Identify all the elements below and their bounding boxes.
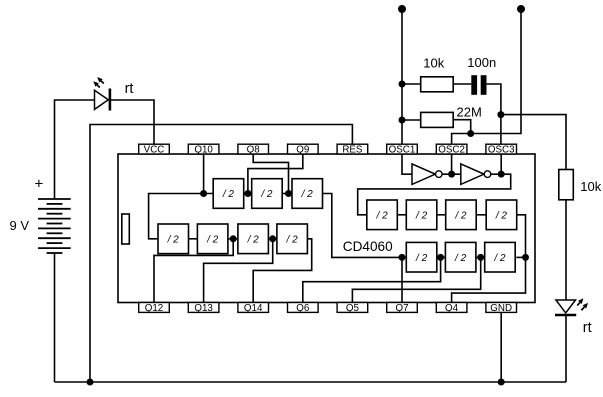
divider A /2 (213, 179, 244, 209)
svg-text:/ 2: / 2 (454, 210, 467, 221)
divider F /2 (238, 224, 269, 254)
svg-text:/ 2: / 2 (167, 234, 180, 245)
svg-text:/ 2: / 2 (376, 210, 389, 221)
svg-text:/ 2: / 2 (260, 189, 273, 200)
svg-text:/ 2: / 2 (222, 189, 235, 200)
pin Q6 (bottom) (288, 303, 319, 315)
node terminal top rail 1 (398, 5, 406, 13)
svg-text:Q7: Q7 (395, 303, 408, 314)
wire GND pin to bottom rail (500, 312, 502, 382)
node rail1/10k junction (399, 81, 406, 88)
divider R4 /2 (486, 200, 517, 230)
wire S2-S3 connector (476, 256, 485, 258)
LED D2 (rt) bottom-right (555, 300, 576, 315)
LED D1 emission arrows (93, 77, 104, 87)
divider C /2 (292, 179, 323, 209)
node E-F junction (230, 235, 237, 242)
wire S1-S2 connector (437, 256, 446, 258)
divider S2 /2 (445, 242, 476, 272)
battery BT1 9V (38, 199, 71, 253)
wire R1-R2 connector (397, 214, 406, 216)
wire E-F connector (228, 238, 238, 240)
svg-text:/ 2: / 2 (454, 253, 467, 264)
wire R3 to OSC2 node (453, 120, 471, 134)
svg-text:Q14: Q14 (244, 303, 263, 314)
wire inverter2 output to divider R1 input (358, 174, 511, 215)
wire Q8 pin to B-C node (253, 154, 288, 194)
node C1/OSC3/10k junction (497, 111, 504, 118)
node rail1/22M junction (399, 117, 406, 124)
svg-text:OSC1: OSC1 (389, 145, 416, 156)
divider D /2 (158, 224, 189, 254)
divider B /2 (252, 179, 283, 209)
pin OSC3 (top) (486, 144, 517, 155)
svg-text:Q8: Q8 (247, 145, 261, 156)
node F-G junction (269, 235, 276, 242)
node OSC2 junction (448, 171, 455, 178)
svg-text:/ 2: / 2 (301, 189, 314, 200)
node A-B junction (244, 190, 251, 197)
wire LED2 cathode to bottom rail (565, 315, 567, 382)
wire OSC2 pin down (451, 154, 453, 174)
svg-text:Q9: Q9 (296, 145, 309, 156)
wire OSC3 pin down (500, 154, 502, 174)
pin Q9 (top) (288, 144, 319, 155)
wire Q6 tap down to Q6 (303, 257, 441, 302)
divider R2 /2 (406, 200, 437, 230)
wire G output down to Q14 (253, 239, 312, 303)
svg-text:+: + (35, 176, 44, 193)
node lower row right junction (522, 254, 529, 261)
svg-text:RES: RES (342, 145, 363, 156)
divider E /2 (197, 224, 228, 254)
node Q7 tap junction (399, 254, 406, 261)
inverter U1a (412, 164, 442, 185)
wire A-B connector (244, 193, 252, 195)
svg-text:10k: 10k (423, 55, 444, 70)
resistor R1 10k vertical right (559, 170, 574, 200)
wire bottom ground rail (55, 381, 567, 383)
wire E-F node down to Q12 (154, 239, 233, 303)
capacitor C1 100n (471, 75, 486, 95)
pin Q4 (bottom) (436, 303, 467, 315)
node Q10 junction (200, 190, 207, 197)
node terminal top rail 2 (517, 5, 525, 13)
wire B-C connector (282, 193, 292, 195)
svg-text:/ 2: / 2 (415, 253, 428, 264)
pin Q8 (top) (238, 144, 269, 155)
svg-text:VCC: VCC (144, 145, 165, 156)
LED D2 emission arrows (577, 298, 588, 310)
node bottom GND junction (498, 379, 505, 386)
wire R3-R4 connector (476, 214, 486, 216)
svg-text:OSC3: OSC3 (488, 145, 515, 156)
node B-C junction (285, 190, 292, 197)
svg-text:/ 2: / 2 (495, 210, 508, 221)
pin Q14 (bottom) (238, 303, 269, 315)
pin Q7 (bottom) (387, 303, 418, 315)
divider G /2 (277, 224, 308, 254)
wire R2 to C1 (453, 83, 471, 85)
svg-text:OSC2: OSC2 (438, 145, 465, 156)
svg-text:Q13: Q13 (194, 303, 213, 314)
LED D1 (rt) top-left (95, 89, 110, 111)
pin Q12 (bottom) (139, 303, 170, 315)
node OSC3/inverter2 junction (498, 171, 505, 178)
node Q5 tap junction (477, 254, 484, 261)
wire R1 to LED2 (565, 200, 567, 300)
svg-text:Q12: Q12 (145, 303, 164, 314)
wire R2-R3 connector (437, 214, 446, 216)
svg-text:/ 2: / 2 (247, 234, 260, 245)
wire Q5 tap down to Q5 (352, 257, 480, 302)
divider S3 /2 (485, 242, 516, 272)
wire D-E connector (189, 238, 198, 240)
svg-text:rt: rt (583, 320, 592, 336)
svg-text:/ 2: / 2 (206, 234, 219, 245)
svg-text:Q4: Q4 (445, 303, 459, 314)
op IC U1 CD4060 body (118, 154, 535, 303)
pin VCC (top) (139, 144, 170, 155)
svg-text:Q6: Q6 (296, 303, 310, 314)
svg-text:9 V: 9 V (10, 218, 30, 233)
pin GND (bottom) (486, 303, 517, 315)
wire C1 to OSC3 (487, 84, 501, 145)
wire Q9 pin to A-B node (248, 154, 303, 194)
wire to resistor R3 (402, 119, 421, 121)
pin OSC1 (top) (387, 144, 418, 155)
wire OSC2 node and rail2 (452, 9, 521, 145)
wire Q10 pin down to chain input (203, 154, 205, 194)
node bottom-left junction (87, 379, 94, 386)
resistor R3 22M (421, 112, 454, 127)
pin Q5 (bottom) (337, 303, 368, 315)
wire osc node to right 10k (501, 115, 566, 170)
pin Q10 (top) (188, 144, 219, 155)
svg-text:/ 2: / 2 (415, 210, 428, 221)
pin RES (top) (337, 144, 368, 155)
pin OSC2 (top) (436, 144, 467, 155)
divider R3 /2 (446, 200, 477, 230)
svg-text:Q5: Q5 (346, 303, 360, 314)
svg-text:Q10: Q10 (194, 145, 213, 156)
svg-text:rt: rt (125, 81, 134, 97)
wire chain input into divider A and branch to D (149, 194, 214, 239)
wire tap down to Q7 (401, 257, 403, 302)
IC notch mark (122, 214, 130, 244)
wire F-G node down to Q13 (204, 239, 273, 303)
wire R4 output down to lower row and Q4 (452, 215, 526, 303)
wire battery+ up to LED1 anode (55, 100, 95, 199)
wire rail1 down to OSC1 (401, 9, 403, 145)
wire left rail to RES (90, 125, 352, 383)
wire battery- down to bottom rail (54, 253, 56, 382)
svg-text:/ 2: / 2 (286, 234, 299, 245)
svg-text:100n: 100n (467, 55, 496, 70)
pin Q13 (bottom) (188, 303, 219, 315)
svg-text:22M: 22M (457, 104, 482, 119)
inverter U1b (461, 164, 491, 185)
svg-text:10k: 10k (580, 179, 601, 194)
resistor R2 10k horizontal (421, 77, 454, 92)
node 22M/OSC2/rail2 junction (467, 130, 474, 137)
divider S1 /2 (406, 242, 437, 272)
wire S3 to corner (516, 256, 525, 258)
wire F-G connector (268, 238, 277, 240)
wire LED1 cathode to VCC pin (110, 100, 154, 145)
svg-text:GND: GND (490, 303, 512, 314)
svg-text:CD4060: CD4060 (343, 239, 393, 254)
wire to resistor R2 (402, 83, 421, 85)
wire inverter1 out to inverter2 in (442, 173, 461, 175)
wire divider C output to lower-right row (323, 194, 407, 258)
svg-text:/ 2: / 2 (493, 253, 506, 264)
node Q6 tap junction (437, 254, 444, 261)
divider R1 /2 (367, 200, 398, 230)
wire OSC1 pin to inverter input (402, 154, 412, 174)
